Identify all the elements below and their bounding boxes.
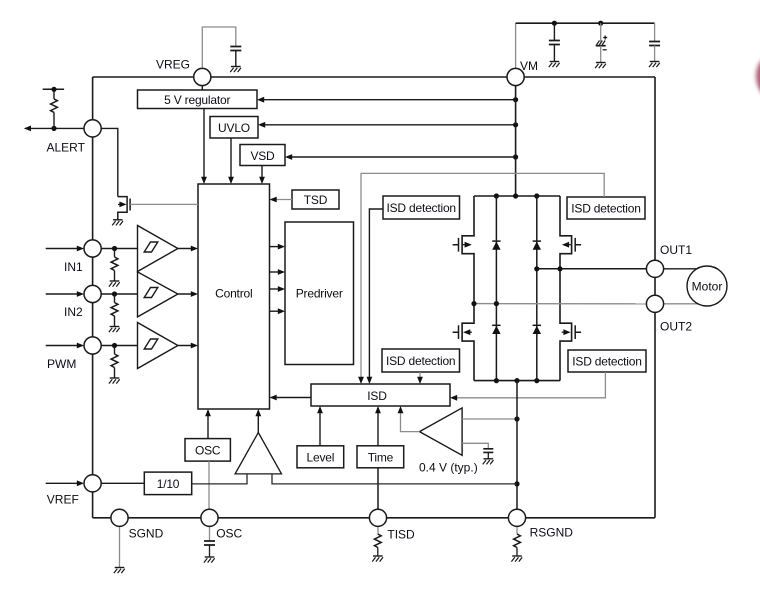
wire 1/10 to oscillator base left [192, 474, 247, 484]
wire buffer U1 to Control [178, 248, 196, 250]
svg-text:VM: VM [520, 59, 538, 73]
svg-text:5 V regulator: 5 V regulator [164, 93, 230, 107]
polarized capacitor C2 bottom plate [596, 45, 606, 47]
svg-text:ISD detection: ISD detection [386, 201, 455, 215]
pin OUT1 [646, 260, 663, 277]
pin SGND [111, 509, 128, 526]
wire top supply rail [516, 22, 655, 24]
junction top rail VM [513, 193, 518, 198]
wire oscillator base right to sense line [272, 474, 517, 484]
wire VREF to 1/10 [101, 482, 144, 484]
pin VREG [194, 68, 211, 85]
svg-text:Motor: Motor [692, 280, 723, 294]
transistor M3 low-side left gate [453, 325, 459, 339]
schmitt buffer U1 [138, 226, 178, 272]
junction bottom rail right diode [534, 378, 539, 383]
wire Control to Predriver 2 [270, 271, 284, 273]
junction VM line VSD [513, 154, 518, 159]
PWM wire to buffer [101, 345, 137, 347]
wire comparator plus input to sense line [462, 418, 517, 420]
Control block [198, 184, 270, 409]
oscillator triangle U5 [235, 433, 281, 474]
capacitor on VREG [230, 47, 241, 51]
wire comparator minus input to reference [462, 443, 488, 449]
junction OUT1 diode [534, 266, 539, 271]
IC boundary bottom edge [93, 517, 655, 519]
wire cap3 to ground [654, 46, 656, 62]
polarized capacitor C2 minus tick [603, 49, 607, 51]
transistor Q1 source arrow [118, 203, 121, 205]
transistor M2 high-side right gate [575, 238, 581, 252]
Time block [357, 446, 404, 468]
polarized capacitor C2 top plate hatched [597, 41, 606, 46]
Level block [297, 446, 344, 468]
wire buffer U3 to Control [178, 345, 196, 347]
junction VM line UVLO [513, 122, 518, 127]
resistor R4 PWM pulldown [114, 346, 116, 355]
wire Control to Predriver 1 [270, 246, 284, 248]
ISD detection top-right block [567, 197, 645, 219]
wire cap to ground [235, 51, 237, 67]
wire VREG pin to regulator [201, 86, 203, 90]
diode D1 symbol [492, 242, 500, 250]
sense line RSGND vertical [516, 381, 518, 510]
1/10 block [144, 472, 191, 495]
transistor M3 arrow [469, 331, 473, 333]
schmitt buffer U3 [138, 323, 178, 369]
capacitor on OSC pin [204, 541, 215, 545]
VSD block [240, 145, 285, 166]
svg-text:ISD detection: ISD detection [386, 354, 455, 368]
watermark logo partial circle top-right [756, 57, 760, 95]
pin VM [507, 68, 524, 85]
wire reference cap to ground [487, 452, 489, 458]
ground of VREG cap [230, 67, 241, 73]
svg-text:Level: Level [307, 451, 335, 465]
svg-text:OUT2: OUT2 [660, 320, 692, 334]
pull-up resistor R1 leads [53, 89, 55, 128]
junction IN1 [112, 246, 117, 251]
OSC block [185, 439, 230, 462]
junction OUT1 rail [557, 266, 562, 271]
wire VM to 5V regulator [259, 99, 516, 101]
junction bottom rail left diode [494, 378, 499, 383]
svg-text:ISD detection: ISD detection [571, 202, 640, 216]
diode D1 line [495, 196, 497, 381]
ground of cap3 [649, 62, 660, 68]
ground of reference [483, 459, 494, 465]
wire OUT1 to motor [655, 268, 697, 270]
junction pull-up bar [51, 87, 56, 92]
transistor M4 arrow [562, 331, 566, 333]
polarized capacitor C2 plus sign [603, 36, 607, 40]
wire comparator output to ISD [401, 408, 420, 432]
ISD detection top-left block [383, 196, 460, 219]
svg-text:0.4 V (typ.): 0.4 V (typ.) [419, 461, 478, 475]
ground of transistor Q1 [112, 220, 123, 226]
resistor R3 IN2 pulldown [114, 294, 116, 303]
IN2 input wire [46, 293, 82, 295]
ISD detection bottom-left block [382, 349, 460, 372]
wire Time to TISD pin [377, 468, 379, 509]
pin IN2 [84, 285, 101, 302]
transistor M1 high-side left gate [453, 238, 459, 252]
junction bottom rail sense [514, 378, 519, 383]
resistor R2 IN1 pulldown [114, 249, 116, 258]
capacitor reference 0.4V [483, 449, 493, 453]
transistor Q1 gate wire from Control [130, 203, 198, 205]
pull-up supply bar [43, 88, 64, 90]
transistor M1 arrow [463, 244, 467, 246]
open-drain transistor Q1 drain wire from ALERT [101, 128, 118, 196]
junction IN2 [112, 291, 117, 296]
diode D2 line [536, 196, 538, 381]
ISD block [311, 384, 450, 406]
H-bridge left rail with FET detours [462, 196, 474, 381]
ALERT output wire [26, 127, 85, 129]
wire cap2 lead [600, 23, 602, 41]
ground of OSC cap [204, 557, 215, 563]
wire OSC block to OSC pin [208, 461, 210, 509]
IN1 input wire [46, 248, 82, 250]
wire VM up to top rail [515, 23, 517, 68]
wire Control to Predriver 3 [270, 288, 284, 290]
pin ALERT [84, 120, 101, 137]
junction top rail right diode [534, 193, 539, 198]
pin PWM [84, 337, 101, 354]
transistor M2 arrow [568, 244, 572, 246]
SGND pin lead to ground [119, 527, 121, 568]
wire cap3 lead [654, 23, 656, 41]
VREF input wire [46, 482, 82, 484]
junction node cap2 [598, 21, 603, 26]
ground of TISD resistor [372, 556, 383, 562]
capacitor C3 on VM rail [649, 42, 660, 46]
RSGND pin lead [516, 527, 518, 535]
IC boundary top edge [93, 76, 655, 78]
IN1 wire to buffer [101, 248, 137, 250]
schmitt symbol U3 [144, 339, 158, 349]
wire OUT2 node [474, 303, 647, 305]
junction node cap1 [552, 21, 557, 26]
wire VM to VSD [287, 156, 516, 158]
wire OUT2 to motor [655, 303, 698, 305]
resistor R6 on RSGND [514, 534, 521, 548]
svg-text:IN2: IN2 [64, 305, 83, 319]
IC boundary left edge [92, 77, 94, 518]
svg-text:ALERT: ALERT [47, 141, 86, 155]
PWM input wire [46, 345, 82, 347]
wire TSD to Control [272, 199, 293, 201]
svg-text:Time: Time [368, 451, 394, 465]
wire cap2 to ground [600, 46, 602, 63]
H-bridge bottom rail [474, 380, 560, 382]
transistor Q1 body [118, 197, 127, 220]
H-bridge right rail with FET detours [560, 196, 572, 381]
wire Time to ISD [377, 408, 379, 446]
svg-text:ISD detection: ISD detection [572, 355, 641, 369]
svg-text:TSD: TSD [304, 193, 328, 207]
junction top rail left diode [494, 193, 499, 198]
resistor R5 on TISD [374, 534, 381, 548]
wire ISD detection top-left to ISD [369, 209, 383, 382]
junction OUT2 rail [471, 301, 476, 306]
wire cap1 lead [553, 23, 555, 40]
schmitt symbol U2 [144, 288, 158, 298]
schmitt buffer U2 [138, 272, 178, 317]
svg-text:OSC: OSC [216, 527, 242, 541]
ground of RSGND resistor [511, 556, 522, 562]
pin OUT2 [646, 295, 663, 312]
IN2 wire to buffer [101, 293, 137, 295]
svg-text:1/10: 1/10 [157, 477, 180, 491]
junction OUT2 diode [494, 301, 499, 306]
junction sense comparator [514, 416, 519, 421]
wire ISD to Control [272, 397, 312, 399]
pin OSC [201, 509, 218, 526]
TISD pin lead [377, 527, 379, 535]
diode D4 symbol [533, 326, 541, 334]
wire cap1 to ground [553, 45, 555, 62]
transistor M4 low-side right gate [575, 325, 581, 339]
wire ISD detection top-right to ISD [361, 173, 604, 382]
diode D3 symbol [492, 326, 500, 334]
svg-text:ISD: ISD [367, 389, 387, 403]
pin VREF [84, 475, 101, 492]
capacitor C1 on VM rail [549, 41, 560, 45]
svg-text:VREF: VREF [47, 493, 79, 507]
svg-text:VREG: VREG [156, 58, 190, 72]
Predriver block [285, 222, 354, 365]
schmitt symbol U1 [144, 242, 158, 252]
wire ISD detection bottom-left to ISD [419, 372, 421, 382]
comparator U4 [420, 408, 463, 455]
pull-up resistor R1 [51, 99, 58, 113]
svg-text:UVLO: UVLO [218, 121, 250, 135]
wire 5V regulator to Control [203, 109, 205, 183]
ISD detection bottom-right block [568, 350, 646, 372]
wire VREG to external cap [202, 27, 236, 69]
wire Control to Predriver 4 [270, 310, 284, 312]
junction sense VREF line [514, 481, 519, 486]
svg-text:TISD: TISD [387, 528, 415, 542]
ground of R2 [109, 281, 120, 287]
junction ALERT pull-up [51, 126, 56, 131]
TSD block [292, 190, 339, 209]
junction PWM [112, 343, 117, 348]
svg-text:Predriver: Predriver [296, 287, 343, 301]
transistor Q1 gate bar [129, 199, 131, 211]
svg-text:OUT1: OUT1 [660, 243, 692, 257]
diode D2 symbol [533, 242, 541, 250]
pin TISD [369, 509, 386, 526]
svg-text:Control: Control [215, 287, 252, 301]
motor [687, 266, 727, 306]
wire OSC cap to ground [209, 545, 211, 557]
wire OUT1 node [537, 268, 647, 270]
svg-text:PWM: PWM [47, 357, 76, 371]
svg-text:IN1: IN1 [64, 260, 83, 274]
VM feed vertical wire [515, 86, 517, 196]
wire buffer U2 to Control [178, 293, 196, 295]
junction VM line 5Vreg [513, 97, 518, 102]
svg-text:OSC: OSC [195, 444, 221, 458]
svg-text:VSD: VSD [250, 149, 275, 163]
wire VSD to Control [261, 166, 263, 183]
svg-text:RSGND: RSGND [530, 526, 574, 540]
svg-text:SGND: SGND [129, 527, 164, 541]
OSC pin external lead [209, 527, 211, 542]
pin IN1 [84, 240, 101, 257]
wire oscillator to Control [257, 411, 259, 433]
5 V regulator block [138, 90, 258, 109]
ground of R4 [109, 378, 120, 384]
ground of SGND [114, 568, 125, 574]
wire ISD detection bottom-right to ISD [452, 372, 605, 398]
wire VM to UVLO [260, 124, 516, 126]
ground of cap2 [595, 63, 606, 69]
ground of R3 [109, 327, 120, 333]
wire UVLO to Control [230, 138, 232, 182]
wire OSC block to Control [207, 411, 209, 439]
wire Level to ISD [319, 408, 321, 446]
H-bridge top rail [474, 195, 560, 197]
ground of cap1 [549, 62, 560, 68]
UVLO block [210, 117, 258, 139]
IC boundary right edge [654, 77, 656, 518]
pin RSGND [508, 509, 525, 526]
